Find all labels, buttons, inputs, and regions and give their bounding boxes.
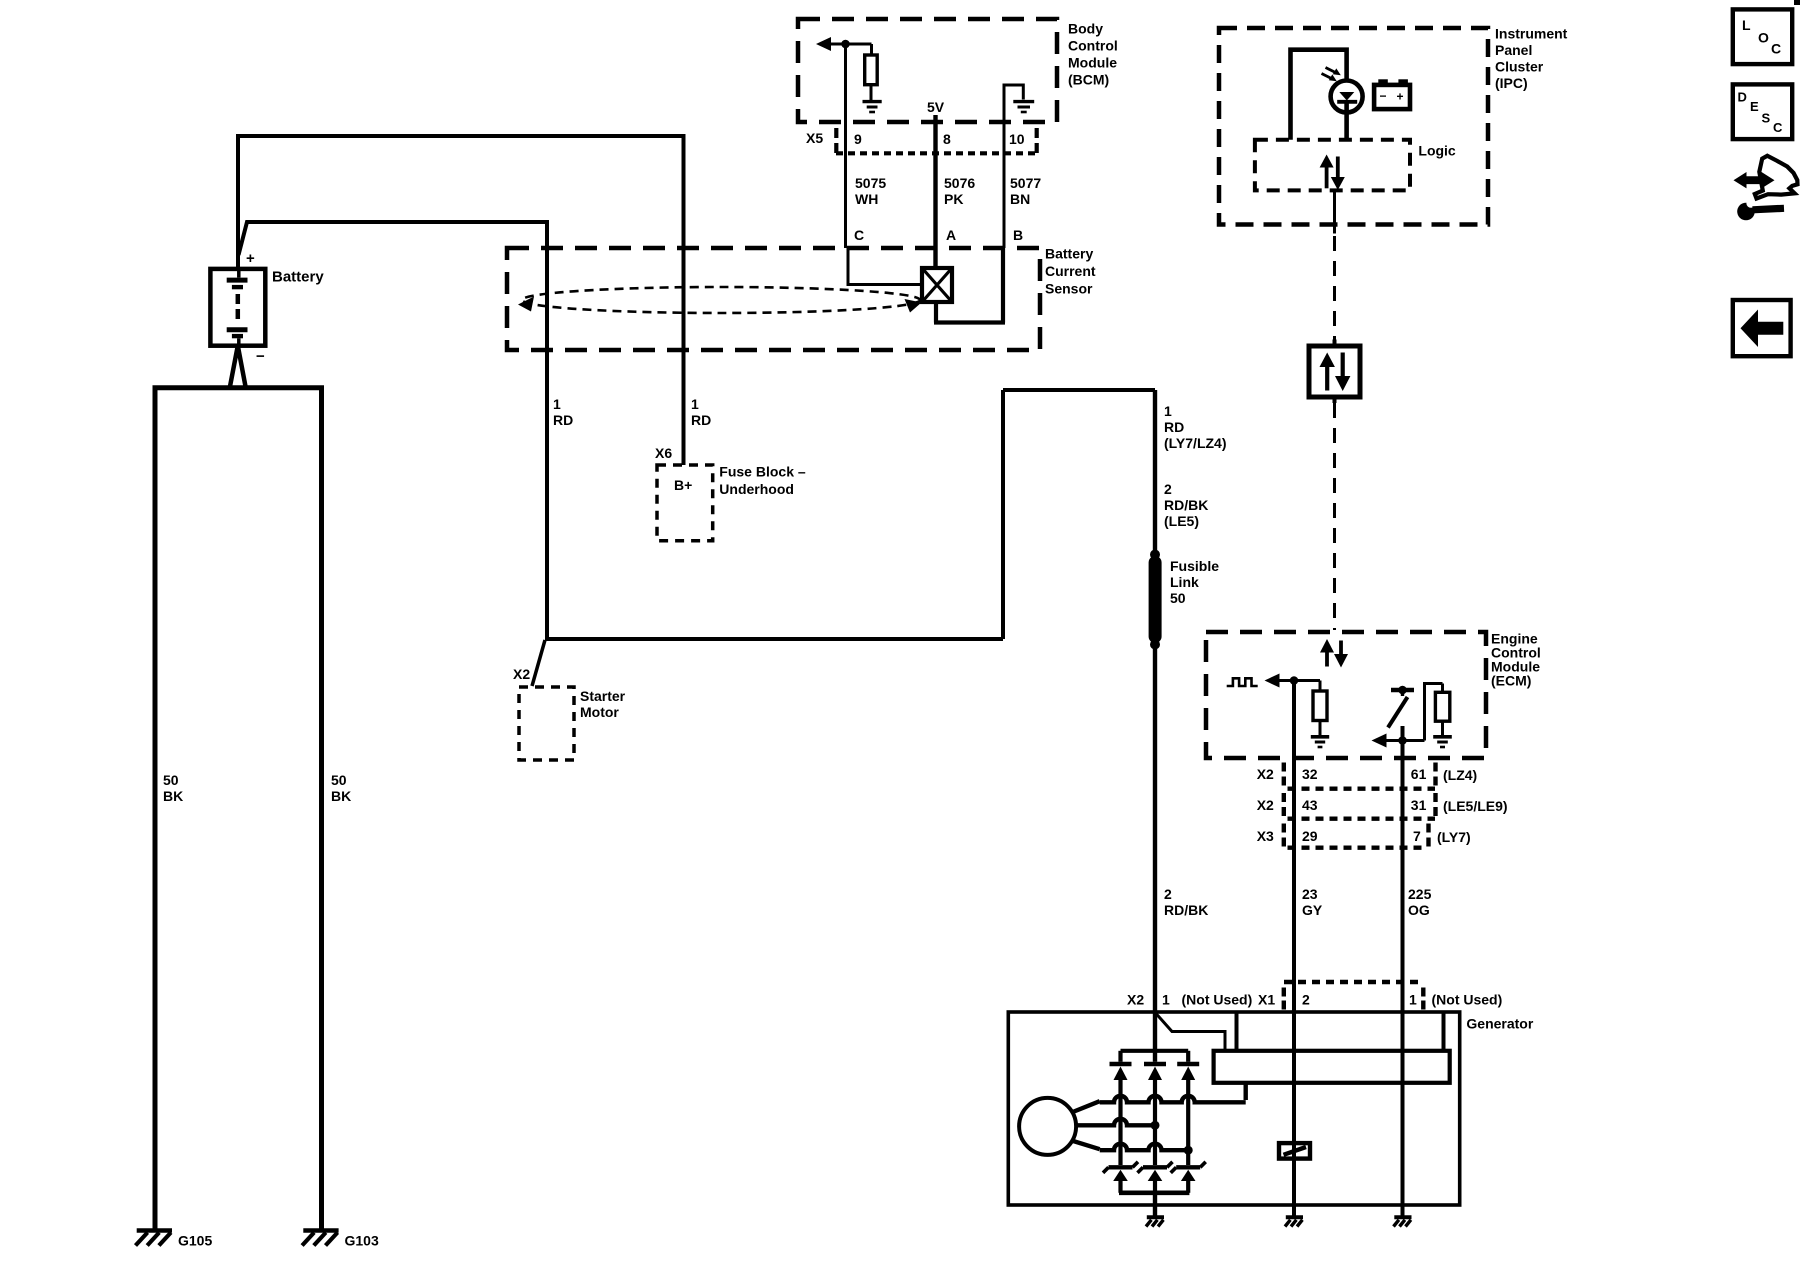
wire battery positive to battery current sensor feed [239, 222, 548, 640]
resistor ECM left [1313, 681, 1327, 736]
diode D2 (upper middle) [1144, 1051, 1166, 1165]
svg-text:(LY7/LZ4): (LY7/LZ4) [1164, 435, 1227, 451]
serial data wire (dashed upper) [1333, 236, 1336, 340]
wire branch to regulator [1156, 1014, 1225, 1051]
wire BCM pin 10 to internal ground [1004, 85, 1023, 122]
connector X1 marks [1282, 988, 1286, 1010]
junction dot switch top [1398, 686, 1407, 695]
svg-text:Cluster: Cluster [1495, 59, 1544, 75]
svg-text:G105: G105 [178, 1233, 212, 1249]
svg-text:G103: G103 [345, 1233, 379, 1249]
serial data link box [1309, 340, 1360, 404]
wire label 23 GY [1302, 886, 1323, 918]
wire generator B+ feed [1153, 390, 1157, 1051]
svg-text:B: B [1013, 227, 1023, 243]
voltage regulator bar [1214, 1051, 1450, 1083]
wire label 50 BK (right) [331, 772, 351, 804]
DESC icon box [1733, 84, 1792, 139]
rectifier bottom bus [1119, 1191, 1189, 1196]
charge indicator LED circle [1331, 81, 1363, 113]
wire label 5075 WH [855, 175, 886, 207]
label Instrument Panel Cluster (IPC) [1495, 26, 1568, 92]
junction dot BCM [841, 40, 850, 49]
svg-text:X3: X3 [1257, 828, 1274, 844]
svg-text:8: 8 [943, 131, 951, 147]
svg-text:A: A [946, 227, 956, 243]
svg-text:Body: Body [1068, 21, 1103, 37]
svg-text:5V: 5V [927, 99, 945, 115]
wire stub to starter motor [532, 640, 545, 686]
wire label 2 RD/BK (LE5) [1164, 481, 1208, 529]
ellipse arrow right [905, 299, 922, 313]
wire label 2 RD/BK (lower) [1164, 886, 1208, 918]
label Engine Control Module (ECM) [1491, 631, 1541, 689]
wire 5077 BN [1003, 122, 1006, 248]
svg-text:Current: Current [1045, 263, 1096, 279]
svg-text:−: − [256, 348, 265, 365]
svg-text:2: 2 [1164, 481, 1172, 497]
svg-text:O: O [1758, 30, 1769, 46]
ground G103 [302, 1231, 339, 1246]
label Body Control Module (BCM) [1068, 21, 1118, 88]
svg-text:1: 1 [1409, 992, 1417, 1008]
svg-text:(ECM): (ECM) [1491, 673, 1531, 689]
resistor ECM right [1435, 684, 1449, 736]
svg-text:B+: B+ [674, 477, 692, 493]
svg-text:Battery: Battery [1045, 246, 1093, 262]
wire logic to IPC edge [1333, 190, 1336, 233]
svg-text:WH: WH [855, 191, 878, 207]
label Starter Motor [580, 688, 626, 720]
svg-text:BK: BK [331, 788, 351, 804]
switch lever [1388, 697, 1408, 728]
svg-text:1: 1 [553, 396, 561, 412]
svg-text:E: E [1750, 99, 1759, 114]
svg-text:X1: X1 [1258, 992, 1275, 1008]
svg-text:(LE5): (LE5) [1164, 513, 1199, 529]
serial data arrows in ECM [1320, 639, 1348, 668]
svg-text:Sensor: Sensor [1045, 281, 1093, 297]
svg-text:X2: X2 [1257, 766, 1274, 782]
wire arrow to resistor [831, 43, 872, 46]
zener Z1 (lower left) [1103, 1162, 1138, 1193]
label Fuse Block Underhood [719, 464, 806, 498]
lamp element on wire 2 [1279, 1143, 1310, 1159]
svg-text:50: 50 [331, 772, 347, 788]
signal arrow inside BCM [816, 37, 831, 51]
wire label 1 RD (LY7/LZ4) [1164, 403, 1227, 451]
ellipse arrow left [518, 297, 534, 312]
svg-text:GY: GY [1302, 902, 1323, 918]
wire from sensor leg down to starter junction and across to generator leg [545, 390, 1155, 639]
LED cathode bar [1337, 100, 1357, 104]
wire 225 OG [1401, 726, 1405, 1205]
svg-text:RD: RD [553, 412, 573, 428]
svg-text:RD/BK: RD/BK [1164, 902, 1208, 918]
serial data arrows in logic [1320, 155, 1345, 191]
wire label 1 RD (to fuse block) [691, 396, 711, 428]
junction dot fusible link top [1150, 550, 1160, 560]
svg-text:5075: 5075 [855, 175, 886, 191]
wire battery positive to fuse block B+ [238, 136, 684, 465]
svg-text:9: 9 [854, 131, 862, 147]
svg-text:Fuse Block –: Fuse Block – [719, 464, 806, 480]
regulator stub right [1442, 1012, 1446, 1051]
svg-text:Instrument: Instrument [1495, 26, 1568, 42]
svg-text:(LE5/LE9): (LE5/LE9) [1443, 798, 1508, 814]
serial data wire (dashed lower) [1333, 403, 1336, 630]
svg-text:(IPC): (IPC) [1495, 75, 1528, 91]
ground (wire 1) [1394, 1217, 1412, 1226]
svg-text:C: C [1771, 41, 1781, 57]
ground (BCM resistor) [863, 102, 882, 112]
diode D3 (upper right) [1177, 1051, 1199, 1165]
ground (BCM right) [1013, 102, 1034, 112]
wire LED to logic [1344, 103, 1349, 140]
stator phase middle [1076, 1119, 1155, 1126]
svg-text:225: 225 [1408, 886, 1432, 902]
svg-text:10: 10 [1009, 131, 1025, 147]
stator winding circle [1019, 1098, 1076, 1155]
ground (generator case) [1146, 1217, 1164, 1226]
svg-text:X6: X6 [655, 445, 672, 461]
svg-text:(LZ4): (LZ4) [1443, 767, 1477, 783]
svg-text:X2: X2 [1257, 797, 1274, 813]
svg-text:2: 2 [1164, 886, 1172, 902]
svg-text:RD: RD [691, 412, 711, 428]
svg-text:Fusible: Fusible [1170, 558, 1219, 574]
svg-text:Generator: Generator [1466, 1016, 1533, 1032]
svg-text:X2: X2 [1127, 992, 1144, 1008]
svg-text:5077: 5077 [1010, 175, 1041, 191]
svg-text:Module: Module [1068, 55, 1117, 71]
switch stub [1401, 690, 1404, 696]
page corner mark [1794, 0, 1800, 5]
starter motor (dashed box) [519, 687, 574, 760]
wire sensor to pin B [934, 248, 1005, 323]
svg-text:(Not Used): (Not Used) [1182, 992, 1253, 1008]
diode D1 (upper left) [1110, 1051, 1132, 1165]
svg-text:C: C [1773, 120, 1783, 135]
wire regulator to stator phase [1243, 1083, 1247, 1100]
svg-text:1: 1 [691, 396, 699, 412]
svg-text:32: 32 [1302, 766, 1318, 782]
wire 5076 PK (5V) [933, 115, 937, 268]
battery current sensor (dashed box) [507, 248, 1040, 350]
svg-text:Underhood: Underhood [719, 481, 794, 497]
wire 5075 WH [844, 44, 847, 248]
svg-text:Link: Link [1170, 574, 1199, 590]
regulator stub left [1235, 1012, 1239, 1051]
wire 23 GY [1292, 681, 1296, 1206]
label Fusible Link 50 [1170, 558, 1219, 606]
instrument panel cluster IPC (dashed box) [1219, 28, 1488, 225]
wire label 225 OG [1408, 886, 1432, 918]
wire label 5076 PK [944, 175, 975, 207]
battery B1 [210, 269, 265, 346]
ECM connector rows marks [1284, 763, 1436, 848]
generator (solid box) [1008, 1012, 1459, 1205]
wire label 50 BK (left) [163, 772, 183, 804]
svg-text:S: S [1762, 111, 1771, 126]
ground bus wire [153, 385, 325, 390]
svg-text:50: 50 [1170, 590, 1186, 606]
wire L to resistor 2 [1425, 684, 1443, 741]
svg-text:7: 7 [1413, 828, 1421, 844]
svg-text:5076: 5076 [944, 175, 975, 191]
wire 225 OG stub below generator [1401, 1205, 1405, 1216]
connector X1 dashed bracket [1284, 980, 1423, 984]
svg-text:Motor: Motor [580, 704, 619, 720]
svg-text:D: D [1738, 90, 1747, 105]
svg-text:1: 1 [1164, 403, 1172, 419]
svg-text:C: C [854, 227, 864, 243]
zener Z3 (lower right) [1171, 1162, 1206, 1193]
svg-text:(Not Used): (Not Used) [1432, 992, 1503, 1008]
engine control module ECM (dashed box) [1206, 632, 1486, 758]
splice from battery negative [230, 346, 246, 388]
svg-text:X5: X5 [806, 130, 823, 146]
LOC icon box [1733, 9, 1792, 64]
svg-text:29: 29 [1302, 828, 1318, 844]
signal arrow (sense) [1372, 734, 1387, 748]
fusible link 50 [1149, 556, 1162, 643]
svg-text:1: 1 [1162, 992, 1170, 1008]
signal arrow (field control) [1265, 674, 1280, 688]
junction dot fusible link bottom [1150, 640, 1160, 650]
svg-text:Panel: Panel [1495, 42, 1532, 58]
wire label 5077 BN [1010, 175, 1041, 207]
label Battery Current Sensor [1045, 246, 1096, 297]
junction dot ECM right [1398, 736, 1407, 745]
svg-text:BN: BN [1010, 191, 1030, 207]
wire arrow to resistor ECM [1280, 679, 1321, 682]
connector X1 marks right [1421, 988, 1425, 1010]
svg-text:50: 50 [163, 772, 179, 788]
svg-text:+: + [246, 250, 255, 267]
svg-text:23: 23 [1302, 886, 1318, 902]
wire pin C into sensor [848, 248, 922, 285]
svg-text:+: + [1397, 90, 1404, 104]
svg-text:RD/BK: RD/BK [1164, 497, 1208, 513]
wire bus to generator case [1153, 1193, 1157, 1216]
LED diode triangle [1339, 92, 1354, 101]
ground G105 [136, 1231, 173, 1246]
svg-text:(BCM): (BCM) [1068, 72, 1109, 88]
sensed-wire ellipse (dashed) [522, 287, 920, 313]
junction dot ECM left [1290, 676, 1299, 685]
svg-text:X2: X2 [513, 666, 530, 682]
ground (ECM right resistor) [1433, 737, 1452, 747]
back arrow icon box [1733, 300, 1791, 356]
resistor R-BCM pullup [865, 44, 878, 100]
svg-text:OG: OG [1408, 902, 1430, 918]
svg-text:2: 2 [1302, 992, 1310, 1008]
stator phase top [1072, 1101, 1100, 1112]
wire 50 BK left to G105 [153, 388, 158, 1229]
wire label 1 RD (to sensor branch) [553, 396, 573, 428]
logic block (dashed box) [1255, 140, 1410, 191]
wire 50 BK right to G103 [319, 388, 324, 1229]
svg-text:PK: PK [944, 191, 963, 207]
junction dot phase bottom [1184, 1146, 1193, 1155]
reroute icon [1734, 156, 1798, 221]
ground (wire 2) [1285, 1217, 1303, 1226]
wire IPC indicator loop [1291, 50, 1347, 140]
sensor element (X box) [922, 268, 952, 302]
svg-text:RD: RD [1164, 419, 1184, 435]
rectifier top bus [1121, 1049, 1189, 1053]
svg-text:−: − [1380, 89, 1387, 103]
wire arrow to resistor 2 [1387, 739, 1425, 742]
junction dot phase middle [1151, 1121, 1160, 1130]
svg-text:BK: BK [163, 788, 183, 804]
pulse signal symbol [1227, 678, 1258, 686]
svg-text:31: 31 [1411, 797, 1427, 813]
svg-text:43: 43 [1302, 797, 1318, 813]
ground (ECM left resistor) [1311, 737, 1329, 747]
zener Z2 (lower middle) [1138, 1162, 1173, 1193]
svg-text:61: 61 [1411, 766, 1427, 782]
svg-text:Logic: Logic [1418, 143, 1456, 159]
wire 23 GY stub below generator [1292, 1205, 1296, 1216]
svg-text:L: L [1742, 17, 1751, 33]
battery symbol icon in IPC [1374, 79, 1410, 109]
LED light arrows [1322, 68, 1341, 82]
svg-text:(LY7): (LY7) [1437, 829, 1471, 845]
body control module BCM (dashed box) [798, 19, 1057, 122]
stator phase bottom [1072, 1141, 1100, 1150]
svg-text:Control: Control [1068, 38, 1118, 54]
switch contact bar [1391, 688, 1414, 692]
connector X5 row marks [836, 128, 1037, 153]
svg-text:Starter: Starter [580, 688, 626, 704]
fuse block underhood (dashed box) [657, 465, 713, 541]
svg-text:Battery: Battery [272, 269, 324, 286]
